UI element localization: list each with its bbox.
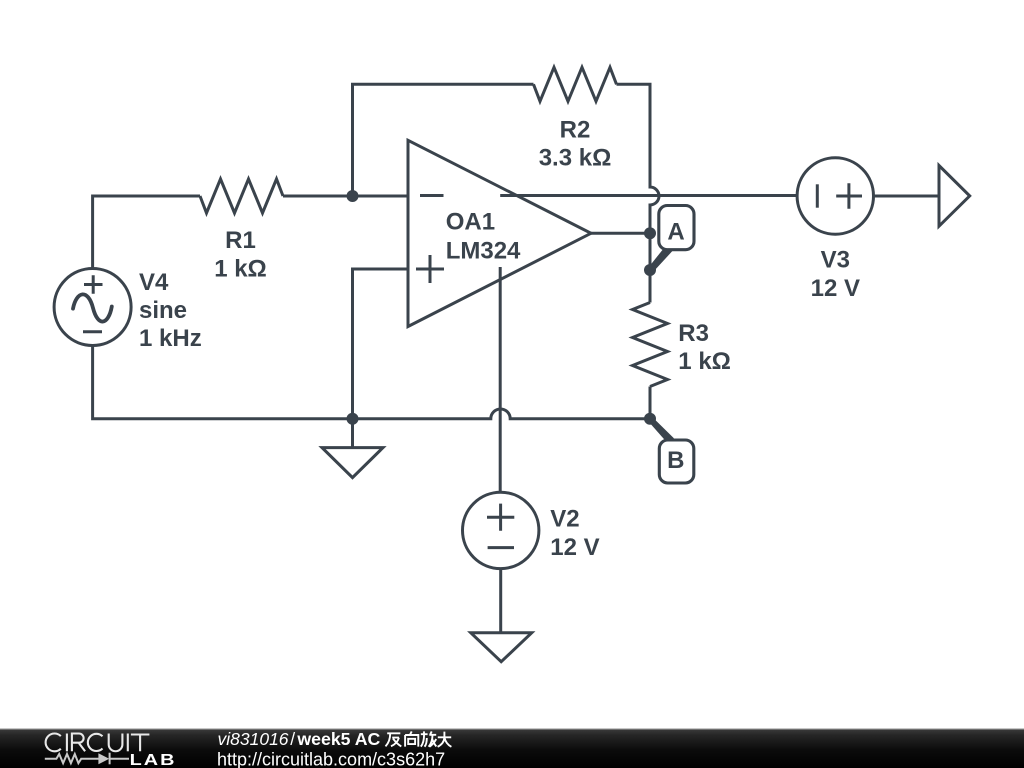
svg-text:V2: V2 [550, 506, 579, 533]
wire: OA1 output to node A junction [591, 232, 650, 235]
svg-text:1 kHz: 1 kHz [139, 325, 202, 352]
junction dot: node B [644, 413, 656, 425]
resistor R3 [633, 303, 668, 387]
voltage source V4 (sine) circle [54, 269, 131, 346]
CJK chars 反向放大 drawn as strokes [386, 731, 452, 746]
glyph han-fang [421, 731, 437, 746]
node A flag box [659, 206, 694, 250]
voltage source V3 (DC 12V) circle [797, 158, 873, 234]
svg-text:V4: V4 [139, 269, 169, 296]
V2 minus sign [488, 546, 514, 549]
V2 plus sign [487, 504, 514, 531]
wire: V4 positive terminal up and right to R1 [93, 196, 200, 269]
glyph han-da [438, 732, 452, 747]
node B flag tail [648, 417, 674, 444]
wire: OA1 V- power pin down to V2 positive terminal [499, 267, 502, 492]
wire: R2 down to node A, with hop over V3 output wire [617, 84, 660, 302]
wire: V2 negative terminal down to ground [499, 569, 502, 633]
svg-text:R2: R2 [560, 116, 591, 143]
junction dot: bottom rail / ground [347, 413, 359, 425]
footer bar [0, 729, 1024, 768]
V4 plus sign [84, 275, 103, 293]
svg-text:12 V: 12 V [811, 275, 860, 302]
svg-text:OA1: OA1 [446, 208, 495, 235]
svg-text:LM324: LM324 [446, 237, 521, 264]
V4 sine wave symbol [73, 294, 112, 321]
resistor R1 [200, 179, 283, 213]
logo CIRCUIT drawn as paths [46, 733, 150, 751]
svg-text:week5 AC: week5 AC [296, 729, 380, 749]
svg-text:R3: R3 [678, 320, 709, 347]
node A flag tail [648, 245, 673, 273]
junction dot: OA1 output / feedback [644, 227, 656, 239]
wire: R1 to op-amp OA1 inverting input (junction at x=352) [283, 195, 408, 198]
ground symbol below V2 [471, 633, 532, 662]
svg-text:/: / [290, 729, 295, 749]
V4 minus sign [83, 330, 102, 333]
resistor R2 (feedback) [534, 67, 617, 101]
glyph han-xiang [405, 731, 418, 746]
junction dot: node A [644, 264, 656, 276]
svg-text:V3: V3 [821, 246, 850, 273]
voltage source V2 (DC 12V) circle [463, 492, 539, 568]
op-amp OA1 non-inverting input plus sign [416, 255, 444, 283]
V3 negative terminal bar [816, 184, 819, 207]
glyph han-fan [386, 733, 402, 746]
svg-text:vi831016: vi831016 [218, 729, 289, 749]
svg-text:1 kΩ: 1 kΩ [678, 348, 731, 375]
svg-text:LAB: LAB [130, 751, 177, 768]
wire: R3 down to node B on bottom rail [649, 387, 652, 419]
wire: V3 right terminal to output flag [874, 195, 940, 198]
wire: output row to V3 left terminal [500, 194, 797, 197]
svg-text:sine: sine [139, 297, 187, 324]
op-amp OA1 body (triangle) [408, 140, 591, 326]
ground symbol at x=352 (non-inverting input rail) [351, 419, 354, 448]
wire: feedback from inverting-input junction up and right to R2 [353, 84, 534, 196]
output terminal flag (triangle) [939, 166, 970, 227]
svg-text:A: A [667, 218, 684, 245]
wire: bottom rail from V4 to node B, with hop over V2 wire [93, 346, 650, 419]
junction dot: R1 / feedback / OA1 inverting input [347, 190, 359, 202]
node B flag box [659, 440, 694, 483]
logo resistor-diode symbol [45, 753, 129, 765]
wire: OA1 non-inverting input left and down to ground rail [353, 269, 409, 419]
svg-text:http://circuitlab.com/c3s62h7: http://circuitlab.com/c3s62h7 [217, 749, 445, 768]
svg-text:3.3 kΩ: 3.3 kΩ [539, 144, 612, 171]
V3 plus sign [836, 183, 862, 208]
op-amp OA1 inverting input minus sign [420, 194, 444, 197]
svg-text:12 V: 12 V [550, 534, 599, 561]
svg-text:R1: R1 [225, 227, 256, 254]
svg-text:B: B [667, 447, 684, 474]
svg-text:1 kΩ: 1 kΩ [214, 255, 267, 282]
